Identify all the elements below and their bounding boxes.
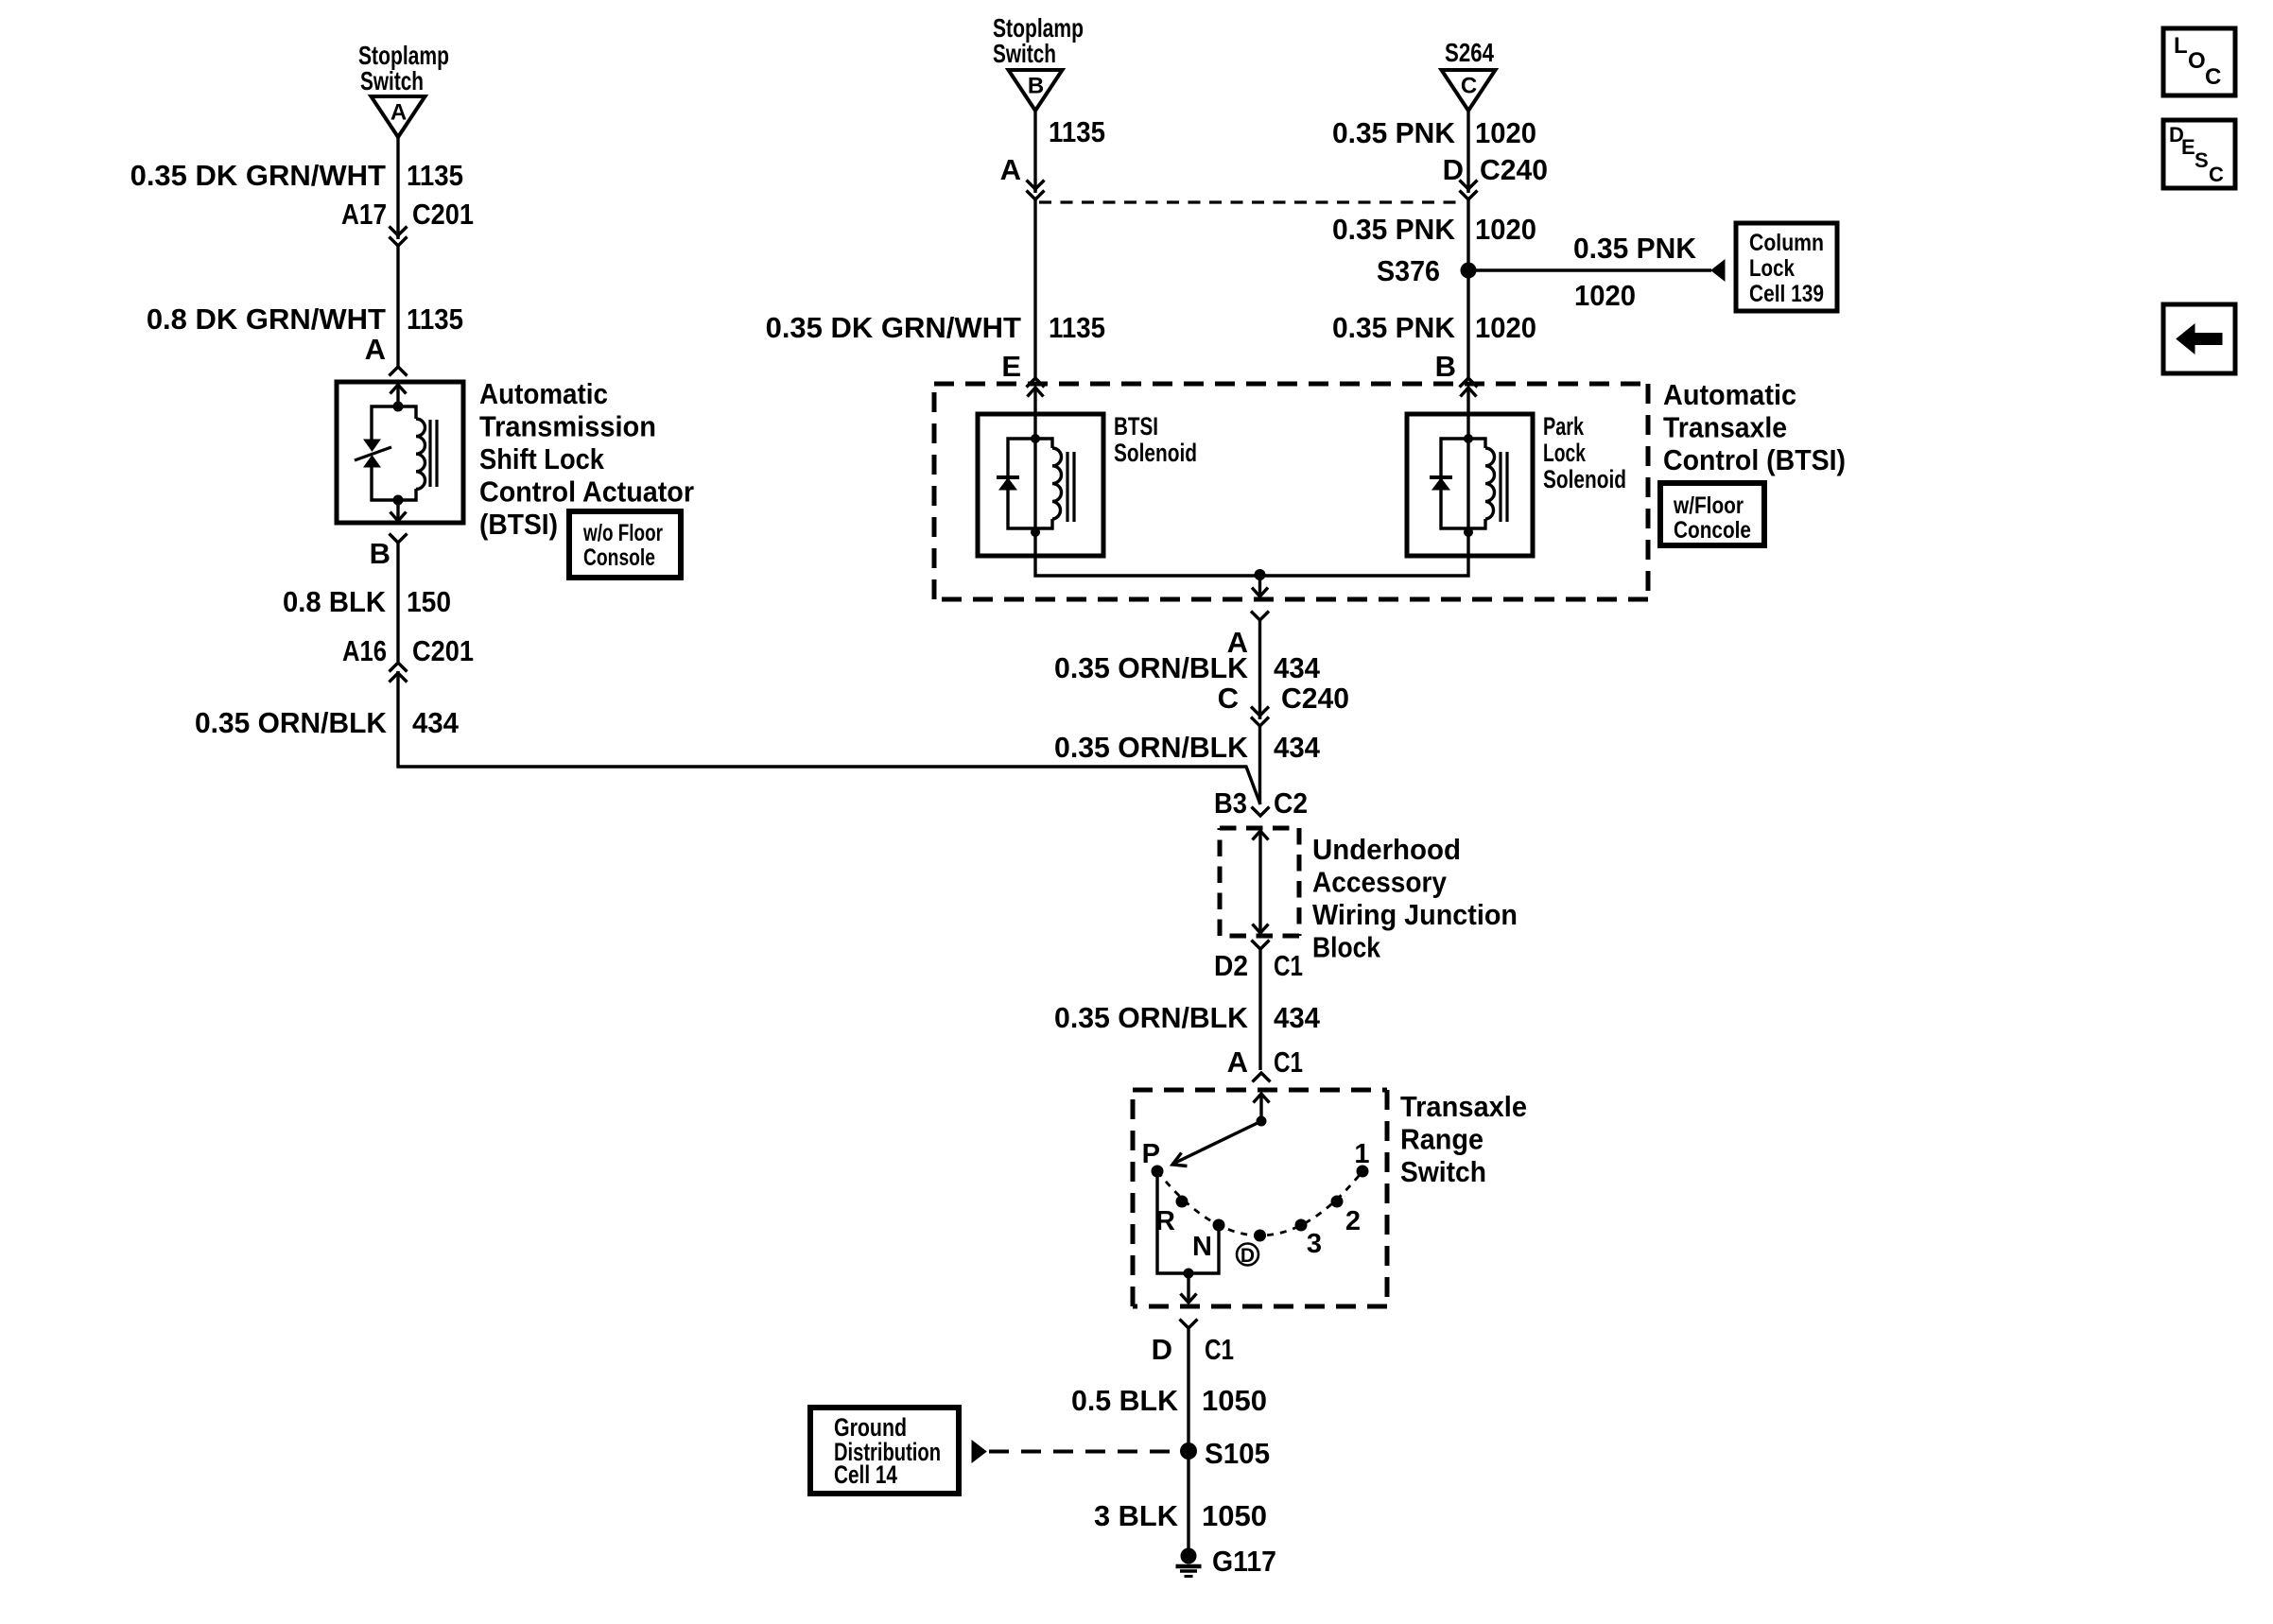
connector C1 pin D labels (1152, 1333, 1234, 1366)
off-page connector triangle C (S264) (1442, 38, 1496, 111)
park lock solenoid pin arrow (1461, 388, 1477, 416)
range switch name (1400, 1090, 1527, 1188)
pin A connector mark (range switch) (1253, 1073, 1271, 1082)
in-line connector (B drop) (1027, 181, 1045, 200)
svg-text:0.35 PNK: 0.35 PNK (1332, 116, 1456, 149)
svg-text:D: D (1241, 1245, 1255, 1267)
svg-text:D: D (1152, 1333, 1172, 1366)
pin D2 connector mark (1252, 941, 1270, 1071)
dashed wire to S105 (989, 1450, 1180, 1454)
BTSI solenoid pin arrow (1028, 388, 1044, 416)
svg-text:1050: 1050 (1202, 1499, 1267, 1532)
dashed tie line between connectors (1039, 200, 1465, 203)
svg-text:1135: 1135 (1049, 311, 1105, 344)
wire label 0.35 ORN/BLK 434 (to range switch) (1054, 1001, 1321, 1034)
wire 1135 from stoplamp switch B (1033, 109, 1036, 191)
svg-text:A: A (390, 100, 407, 126)
wire label 0.35 ORN/BLK 434 (below C240) (1054, 731, 1321, 764)
svg-text:Solenoid: Solenoid (1114, 439, 1197, 467)
svg-text:O: O (2188, 48, 2206, 74)
svg-text:A: A (1000, 153, 1021, 186)
svg-text:C201: C201 (412, 634, 474, 667)
pin A label of shift lock actuator (365, 333, 386, 366)
svg-text:C2: C2 (1274, 786, 1308, 820)
pin D connector mark (1180, 1320, 1198, 1452)
wire 1135 below C201 (396, 246, 399, 367)
contact R (1155, 1196, 1188, 1237)
svg-text:0.35 PNK: 0.35 PNK (1573, 232, 1697, 265)
legend box LOC (2163, 28, 2235, 95)
wire label 0.8 BLK 150 (283, 585, 451, 618)
svg-text:Control Actuator: Control Actuator (479, 475, 694, 509)
actuator coil branch (398, 406, 425, 500)
svg-text:3 BLK: 3 BLK (1094, 1499, 1179, 1532)
svg-text:Switch: Switch (993, 39, 1056, 68)
svg-text:0.35 ORN/BLK: 0.35 ORN/BLK (1054, 731, 1249, 764)
svg-text:1020: 1020 (1475, 311, 1536, 344)
svg-text:B: B (1028, 74, 1044, 99)
contact 3 (1295, 1219, 1323, 1260)
svg-text:0.8 DK GRN/WHT: 0.8 DK GRN/WHT (147, 302, 386, 336)
qualifier box w/o Floor Console (569, 511, 681, 578)
wire label 0.35 DK GRN/WHT 1135 (E) (766, 311, 1105, 344)
pin E label (1001, 350, 1021, 383)
svg-text:0.35 PNK: 0.35 PNK (1332, 311, 1456, 344)
BTSI solenoid name (1114, 412, 1197, 467)
svg-text:1: 1 (1354, 1139, 1369, 1169)
wire label 0.35 PNK 1020 (above S376) (1332, 213, 1536, 246)
bracket junction node (1184, 1269, 1194, 1279)
ground distribution pointer arrow (972, 1441, 986, 1462)
svg-text:0.35 DK GRN/WHT: 0.35 DK GRN/WHT (130, 159, 386, 192)
component box: BTSI Solenoid L1 (978, 414, 1103, 556)
wire 3 BLK 1050 (1187, 1451, 1189, 1550)
svg-text:Cell 14: Cell 14 (834, 1460, 897, 1489)
svg-text:150: 150 (407, 585, 451, 618)
svg-text:Solenoid: Solenoid (1543, 465, 1626, 493)
svg-text:Console: Console (583, 544, 655, 571)
park lock solenoid wire through box (1466, 414, 1469, 556)
svg-text:E: E (2181, 135, 2195, 159)
svg-text:C: C (1461, 74, 1477, 99)
module name label (1663, 378, 1846, 476)
actuator internal bottom junction (393, 495, 404, 506)
ground G117 (1176, 1548, 1202, 1577)
circled D label (1237, 1244, 1258, 1268)
svg-text:1050: 1050 (1202, 1384, 1267, 1417)
qualifier box w/Floor Concole (1660, 483, 1764, 545)
svg-text:C240: C240 (1480, 153, 1548, 186)
svg-text:C: C (2205, 64, 2221, 90)
svg-text:w/Floor: w/Floor (1673, 492, 1744, 519)
wire label 0.35 PNK 1020 (B) (1332, 311, 1536, 344)
svg-text:434: 434 (412, 706, 460, 739)
svg-text:C1: C1 (1274, 949, 1303, 982)
svg-text:Range: Range (1400, 1123, 1484, 1156)
wire 1020 to park lock solenoid (1466, 270, 1469, 378)
component name label (479, 377, 694, 541)
legend box DESC (2163, 120, 2235, 188)
wire label 0.8 DK GRN/WHT 1135 (147, 302, 463, 336)
solenoid common return wire (1035, 556, 1468, 576)
in-line connector C201 (A17) (390, 227, 408, 247)
connector C2 pin B3 labels (1214, 786, 1308, 820)
contact 2 (1331, 1196, 1362, 1237)
svg-text:D2: D2 (1214, 949, 1248, 982)
svg-text:(BTSI): (BTSI) (479, 508, 558, 541)
actuator box pin B arrow (390, 500, 407, 521)
svg-text:434: 434 (1274, 1001, 1321, 1034)
svg-text:A17: A17 (341, 198, 387, 231)
wire label 1135 (B drop) (1049, 115, 1105, 148)
contact P (1142, 1139, 1164, 1178)
wire 1020 from S264 (1466, 109, 1469, 191)
wire label 0.35 ORN/BLK 434 (195, 706, 460, 739)
pin B label (370, 537, 390, 570)
svg-text:C: C (2209, 163, 2224, 186)
in-line connector C240 (D) (1460, 181, 1478, 200)
svg-text:Cell 139: Cell 139 (1749, 281, 1824, 307)
connector C240 pin D labels (1443, 153, 1548, 186)
wire 434 below C201 to corner (398, 678, 1260, 804)
BTSI solenoid element (997, 434, 1074, 537)
svg-text:0.35 ORN/BLK: 0.35 ORN/BLK (1054, 651, 1249, 684)
svg-text:Concole: Concole (1674, 517, 1751, 544)
svg-text:G117: G117 (1212, 1545, 1276, 1578)
pin B label (park lock) (1435, 350, 1456, 383)
svg-text:0.5 BLK: 0.5 BLK (1071, 1384, 1179, 1417)
range switch output pin arrow (1181, 1273, 1197, 1303)
pin B3 connector mark (1252, 807, 1270, 817)
svg-text:BTSI: BTSI (1114, 412, 1158, 441)
wire label 0.35 DK GRN/WHT 1135 (130, 159, 463, 192)
pin A label (BTSI solenoid feed) (1000, 153, 1021, 186)
actuator coil core lines (430, 420, 437, 487)
svg-text:C1: C1 (1205, 1333, 1234, 1366)
wire label 3 BLK 1050 (1094, 1499, 1267, 1532)
svg-text:Automatic: Automatic (1663, 378, 1796, 411)
wire 1020 to S376 (1466, 199, 1469, 270)
in-line connector C201 (A16) (390, 663, 408, 682)
actuator box pin A arrow (390, 385, 407, 406)
connector C1 pin A labels (1227, 1045, 1303, 1079)
svg-text:Wiring Junction: Wiring Junction (1312, 898, 1518, 931)
pin B connector mark (390, 534, 408, 663)
svg-text:Accessory: Accessory (1312, 866, 1448, 899)
svg-text:Park: Park (1543, 412, 1585, 441)
range switch input pin arrow (1254, 1094, 1270, 1121)
range switch rotor node (1257, 1116, 1267, 1127)
in-line connector C240 (C) (1251, 707, 1269, 727)
svg-text:C201: C201 (412, 198, 474, 231)
BTSI solenoid wire through box (1033, 414, 1036, 556)
svg-text:E: E (1001, 350, 1021, 383)
arrowhead into Column Lock cell (1711, 260, 1725, 281)
pin A connector mark below module (1251, 612, 1269, 720)
svg-text:A: A (1227, 1045, 1248, 1079)
svg-text:Lock: Lock (1749, 255, 1795, 282)
connector C201 pin A17 labels (341, 198, 474, 231)
splice S105 (1180, 1437, 1270, 1470)
ground G117 label (1212, 1545, 1276, 1578)
svg-text:A: A (365, 333, 386, 366)
svg-text:C240: C240 (1281, 682, 1349, 715)
svg-text:1020: 1020 (1475, 213, 1536, 246)
off-page connector triangle A (Stoplamp Switch) (358, 41, 449, 137)
svg-text:S105: S105 (1205, 1437, 1270, 1470)
wire label 0.35 PNK 1020 (above C240) (1332, 116, 1536, 149)
svg-text:Shift Lock: Shift Lock (479, 442, 605, 475)
svg-text:2: 2 (1345, 1206, 1361, 1236)
pin B connector mark (1460, 378, 1478, 388)
svg-text:434: 434 (1274, 731, 1321, 764)
wire label 0.35 ORN/BLK 434 (above C240) (1054, 651, 1321, 684)
actuator TVS diode branch (355, 406, 398, 500)
svg-text:Column: Column (1749, 230, 1824, 256)
svg-text:w/o Floor: w/o Floor (582, 520, 663, 546)
svg-text:C1: C1 (1274, 1045, 1303, 1079)
svg-text:1135: 1135 (407, 302, 463, 336)
off-page connector triangle B (Stoplamp Switch) (993, 13, 1084, 111)
svg-text:C: C (1218, 682, 1239, 715)
svg-text:Transaxle: Transaxle (1663, 411, 1787, 444)
svg-text:N: N (1192, 1232, 1212, 1262)
svg-text:0.35 DK GRN/WHT: 0.35 DK GRN/WHT (766, 311, 1021, 344)
wire 1020 branch to Column Lock (1468, 268, 1711, 271)
dashed module box: Automatic Transaxle Control (BTSI) (934, 384, 1648, 599)
contact N (1192, 1219, 1224, 1263)
connector C1 pin D2 labels (1214, 949, 1303, 982)
wire label 0.5 BLK 1050 (1071, 1384, 1267, 1417)
connector C201 pin A16 labels (342, 634, 474, 667)
module output pin arrow (1252, 575, 1268, 596)
svg-text:Switch: Switch (360, 66, 424, 95)
wire 1135 from stoplamp switch A (396, 137, 399, 237)
svg-text:Switch: Switch (1400, 1155, 1486, 1188)
svg-text:S376: S376 (1377, 254, 1440, 287)
component box: A/T Shift Lock Control Actuator U1 (337, 382, 463, 523)
svg-text:0.35 PNK: 0.35 PNK (1332, 213, 1456, 246)
dashed box: Transaxle Range Switch S1 (1133, 1090, 1387, 1306)
wire label 0.35 PNK / 1020 (branch) (1573, 232, 1697, 312)
svg-text:Transaxle: Transaxle (1400, 1090, 1527, 1123)
P-N common bracket wire (1157, 1171, 1219, 1273)
dashed contact arc (1157, 1171, 1362, 1235)
svg-text:S264: S264 (1445, 38, 1494, 67)
svg-text:B3: B3 (1214, 786, 1247, 820)
pin E connector mark (1027, 378, 1045, 388)
wire 434 below C240 (1258, 726, 1261, 804)
svg-text:Block: Block (1312, 931, 1381, 964)
svg-text:3: 3 (1307, 1229, 1322, 1259)
svg-text:1135: 1135 (407, 159, 463, 192)
svg-text:B: B (370, 537, 390, 570)
reference box Column Lock Cell 139 (1736, 223, 1837, 311)
pin A label (module output) (1227, 626, 1248, 659)
svg-text:S: S (2195, 148, 2209, 172)
svg-text:Lock: Lock (1543, 439, 1587, 467)
svg-text:Underhood: Underhood (1312, 833, 1461, 866)
svg-text:L: L (2174, 33, 2188, 59)
svg-text:0.8 BLK: 0.8 BLK (283, 585, 387, 618)
splice S376 (1377, 254, 1477, 287)
range switch rotor arm with arrowhead (1172, 1121, 1261, 1166)
return junction node (1255, 569, 1266, 580)
dashed box: Underhood Accessory Wiring Junction Block (1220, 828, 1299, 936)
legend box back-arrow (2163, 304, 2235, 373)
junction block name (1312, 833, 1518, 964)
svg-text:1135: 1135 (1049, 115, 1105, 148)
park lock solenoid name (1543, 412, 1626, 493)
reference box Ground Distribution Cell 14 (810, 1408, 959, 1494)
svg-text:0.35 ORN/BLK: 0.35 ORN/BLK (1054, 1001, 1249, 1034)
svg-text:Automatic: Automatic (479, 377, 608, 410)
svg-text:Transmission: Transmission (479, 410, 656, 443)
svg-text:Control (BTSI): Control (BTSI) (1663, 443, 1846, 476)
svg-text:1020: 1020 (1574, 279, 1636, 312)
contact 1 (1354, 1139, 1369, 1178)
connector C240 pin C labels (1218, 682, 1349, 715)
svg-text:A16: A16 (342, 634, 387, 667)
wire 1135 to BTSI solenoid (1033, 199, 1036, 378)
park lock solenoid element (1430, 434, 1507, 537)
junction block feed-through arrows (1253, 831, 1269, 933)
actuator internal top junction (393, 402, 404, 412)
svg-text:1020: 1020 (1475, 116, 1536, 149)
svg-text:P: P (1142, 1139, 1160, 1169)
component box: Park Lock Solenoid L2 (1407, 414, 1533, 556)
svg-text:434: 434 (1274, 651, 1321, 684)
contact D (drive) (1254, 1230, 1266, 1242)
svg-text:0.35 ORN/BLK: 0.35 ORN/BLK (195, 706, 388, 739)
pin A connector mark (390, 367, 408, 376)
svg-text:B: B (1435, 350, 1456, 383)
